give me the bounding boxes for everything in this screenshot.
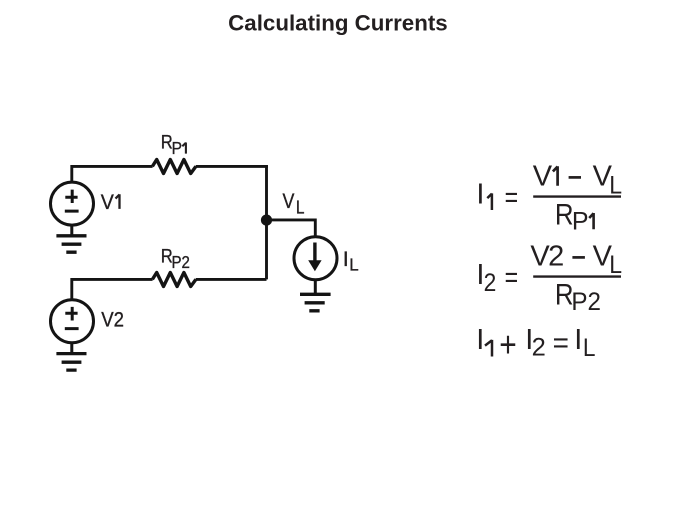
svg-text:L: L	[609, 171, 622, 199]
equation 2: I2 = (V2 - VL)/RP2	[476, 240, 622, 316]
wire top-left from V1 to RP1	[72, 166, 153, 181]
resistor RP1	[152, 160, 196, 174]
svg-text:=: =	[505, 182, 518, 214]
svg-text:I: I	[476, 179, 484, 211]
voltage source V1	[51, 182, 94, 225]
equation 1: I1 = (V1 - VL)/RP1	[476, 161, 622, 236]
svg-text:V2: V2	[101, 308, 124, 332]
svg-text:=: =	[553, 327, 569, 359]
svg-text:P: P	[172, 138, 182, 158]
wire node to current source	[267, 220, 316, 237]
fraction bar 2	[533, 275, 621, 277]
svg-text:I: I	[476, 324, 484, 356]
svg-text:P2: P2	[571, 288, 601, 316]
wire top-right from RP1 to node column	[196, 165, 268, 168]
wire bottom-right from RP2 to node column	[196, 278, 267, 281]
svg-text:L: L	[296, 197, 305, 217]
svg-text:V: V	[282, 190, 294, 213]
svg-text:2: 2	[548, 240, 564, 272]
ground under V2	[56, 343, 86, 370]
equation 3: I1 + I2 = IL	[476, 324, 595, 365]
label VL	[282, 190, 304, 217]
fraction bar 1	[533, 195, 621, 197]
wire bottom from V2 to RP2	[72, 279, 153, 299]
svg-text:+: +	[499, 324, 517, 365]
svg-text:I: I	[574, 324, 582, 356]
svg-text:L: L	[583, 334, 596, 362]
label RP1	[161, 132, 186, 158]
svg-text:I: I	[343, 247, 349, 271]
wire right vertical	[265, 165, 268, 279]
svg-text:L: L	[349, 255, 359, 275]
ground under V1	[56, 225, 86, 252]
label V1	[101, 190, 120, 214]
svg-text:V: V	[101, 190, 115, 214]
svg-text:=: =	[505, 262, 518, 294]
svg-text:P2: P2	[172, 252, 190, 272]
voltage source V2	[51, 300, 94, 343]
svg-text:2: 2	[484, 269, 497, 297]
svg-text:V: V	[533, 161, 553, 193]
ground under IL	[300, 280, 331, 311]
label IL	[343, 247, 359, 275]
current source IL	[294, 237, 337, 280]
label RP2	[161, 246, 190, 272]
resistor RP2	[152, 273, 196, 287]
svg-text:Calculating Currents: Calculating Currents	[228, 11, 448, 36]
node VL dot	[261, 215, 272, 226]
svg-text:L: L	[609, 251, 622, 279]
svg-text:R: R	[555, 199, 574, 232]
svg-text:P: P	[572, 207, 589, 235]
svg-text:2: 2	[532, 333, 546, 361]
